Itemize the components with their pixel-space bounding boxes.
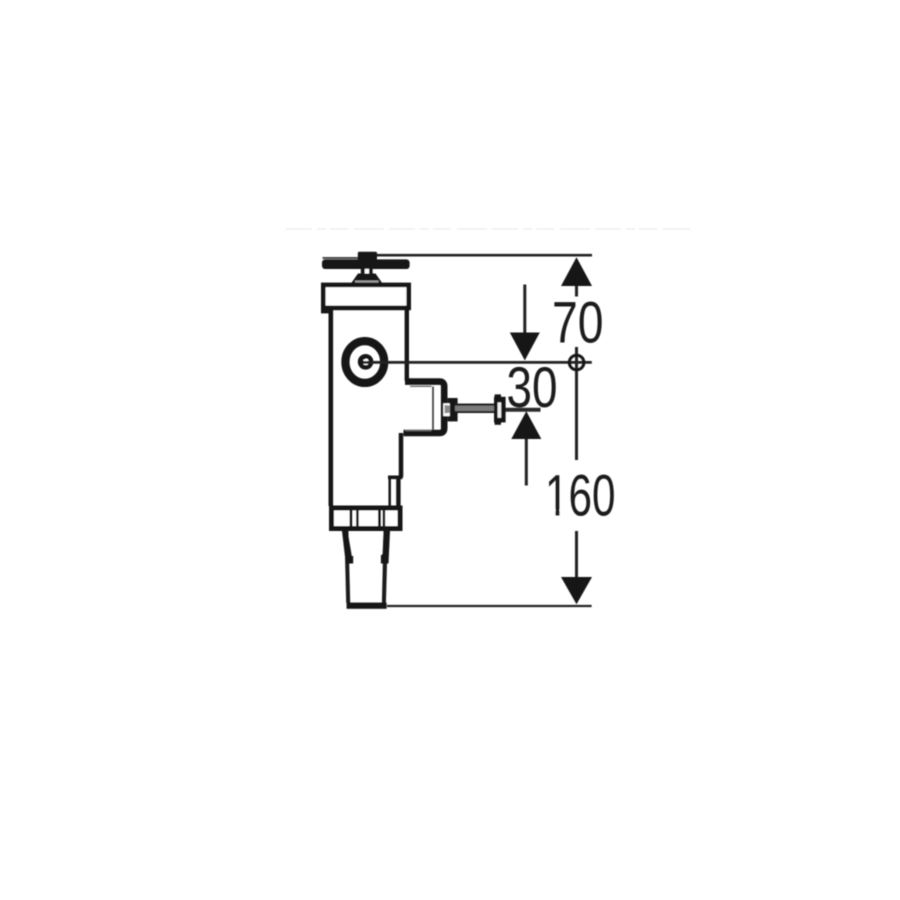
spigot axis extension line bbox=[506, 408, 541, 412]
dim 30 line upper bbox=[523, 285, 526, 333]
baseline bbox=[387, 605, 592, 607]
dim 160 line lower bbox=[575, 531, 578, 578]
valve cap bbox=[323, 285, 408, 308]
body left line bbox=[328, 308, 333, 506]
svg-text:160: 160 bbox=[545, 463, 616, 528]
body right line below boss bbox=[399, 433, 404, 477]
reference point crosshair bbox=[569, 355, 584, 370]
slip nut bbox=[332, 508, 401, 529]
boss inner face lines bbox=[432, 387, 434, 431]
tailpiece right wedge bbox=[381, 531, 390, 564]
handle bar bbox=[322, 259, 410, 269]
tailpiece left wedge bbox=[342, 531, 353, 564]
handle base bbox=[351, 274, 383, 284]
tailpiece right line bbox=[382, 531, 388, 603]
body right line upper bbox=[405, 310, 409, 381]
dim 30 arrow down bbox=[510, 333, 540, 361]
tailpiece left line bbox=[344, 531, 350, 603]
svg-text:70: 70 bbox=[552, 291, 604, 356]
handle knob bbox=[358, 252, 377, 260]
scan artifact line bbox=[286, 228, 690, 230]
dim 70 line upper bbox=[575, 286, 578, 297]
nut facet lines bbox=[350, 509, 353, 528]
step below boss bbox=[388, 475, 403, 479]
spigot flange bbox=[448, 398, 458, 421]
top reference line left segment bbox=[323, 257, 360, 259]
centerline bbox=[363, 361, 592, 364]
tailpiece bottom cap bbox=[347, 603, 387, 609]
inlet circle bbox=[345, 341, 384, 383]
dim 30 line lower bbox=[525, 439, 528, 486]
dim 160 arrow down bbox=[561, 577, 592, 604]
dim 70-160 line bbox=[575, 347, 578, 460]
spigot end fitting bbox=[494, 397, 506, 423]
dim 30 arrow up bbox=[511, 411, 541, 439]
dim 70 arrow up bbox=[561, 257, 592, 286]
outlet boss bbox=[404, 382, 445, 433]
cap corner nub bbox=[321, 306, 332, 314]
inlet inner circle bbox=[360, 356, 371, 367]
neck inner line bbox=[388, 477, 391, 506]
neck outer line bbox=[396, 477, 400, 506]
top reference line bbox=[375, 254, 592, 257]
handle stem bbox=[361, 269, 373, 276]
spigot pipe bbox=[455, 404, 495, 413]
